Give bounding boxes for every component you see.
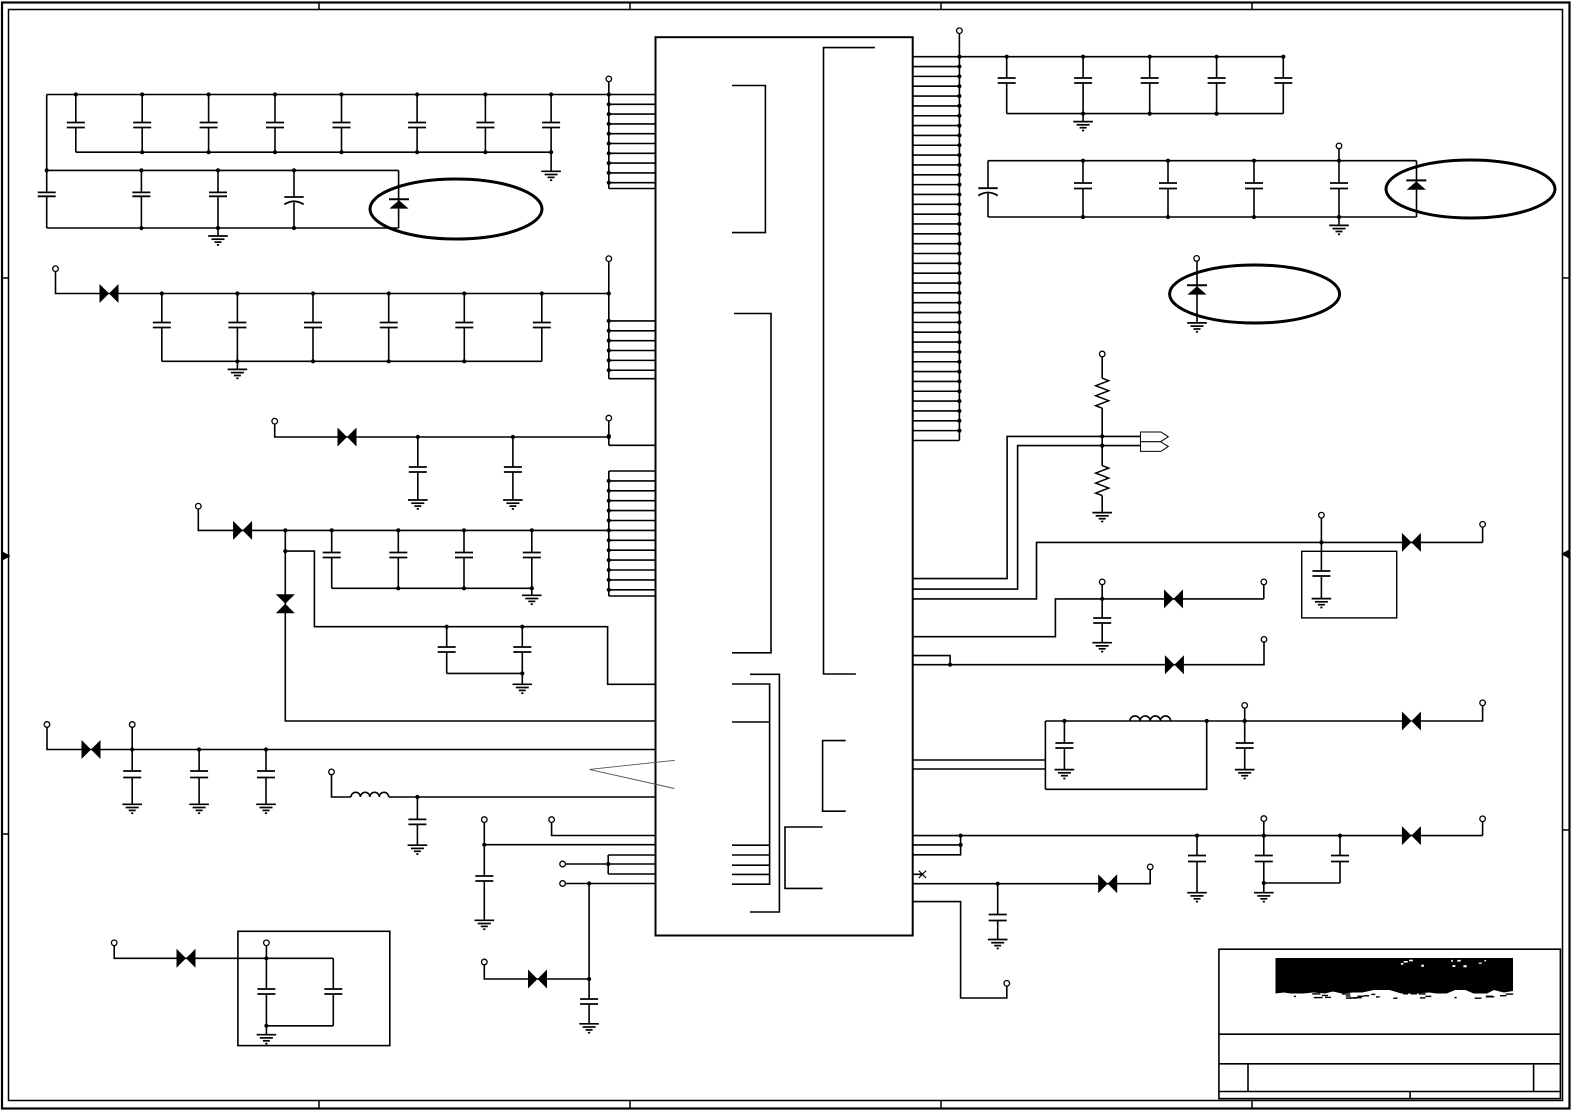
ferrite bead FB12 (1402, 826, 1421, 845)
wire N21 stem (1263, 585, 1265, 599)
right border zone tick 2 (1563, 829, 1570, 831)
wire N23 stem (1244, 708, 1246, 721)
capacitor C34 (380, 291, 398, 361)
capacitor C23 (209, 168, 227, 230)
wire tr-bank top bus (959, 56, 1283, 58)
node N28 connector circle (1004, 981, 1010, 987)
wire tr-bank bottom bus (1007, 113, 1284, 115)
ferrite bead FB6 (528, 970, 547, 989)
bank4 branch junction dot (283, 528, 287, 532)
node N17 connector circle (1099, 351, 1105, 357)
top border zone tick 1 (318, 3, 320, 10)
node N10 connector circle (560, 861, 566, 867)
title block divider 2 (1533, 1064, 1535, 1092)
wire P2 vertical feeder (608, 262, 610, 379)
ground R2 (1092, 513, 1112, 522)
wire bank2 input (56, 272, 609, 294)
node P1 connector circle (606, 76, 612, 82)
wire branch to sub-bank (285, 551, 655, 684)
wire N14 stem (265, 946, 267, 959)
wire sub-bank ground stem (521, 673, 523, 684)
capacitor C111 polarized (978, 161, 997, 217)
title block divider 3 (1409, 1092, 1411, 1099)
wire D3 stem (1196, 261, 1198, 323)
ferrite bead FB4 vertical (276, 594, 295, 613)
ground C142 (1254, 893, 1274, 902)
node N6 connector circle (129, 722, 135, 728)
title block frame (1219, 949, 1561, 1098)
ground D3 (1187, 323, 1207, 332)
highlight ellipse 3 (1170, 265, 1340, 323)
node N11 connector circle (560, 881, 566, 887)
trident connector arrow (1141, 432, 1169, 451)
title block line 3 (1219, 1091, 1561, 1093)
capacitor C122 (1092, 599, 1112, 652)
row1 bottom bus junction dots (140, 150, 487, 154)
node N22 connector circle (1261, 637, 1267, 643)
wire bus835 (913, 835, 1483, 837)
right border zone tick 1 (1563, 277, 1570, 279)
capacitor C18 (542, 92, 560, 152)
node N20 connector circle (1099, 579, 1105, 585)
wire N26 stem (1482, 822, 1484, 836)
node N21 connector circle (1261, 579, 1267, 585)
wire bus3 input (275, 424, 609, 437)
IC inner tall bracket 3 (824, 48, 875, 674)
wire N11 vertical (588, 884, 590, 980)
chevron marker (589, 760, 675, 788)
wire net R4 (913, 599, 1264, 637)
wire bank2 ground stem (236, 361, 238, 369)
IC inner bracket 4 (750, 674, 779, 912)
wire LC pin b (913, 768, 1046, 770)
pin ladder group 1 (607, 92, 656, 188)
wire P1 vertical feeder (608, 82, 610, 189)
wire right pin bus vertical (958, 34, 960, 441)
wire N15 stem (1338, 149, 1340, 161)
capacitor C132 (1235, 719, 1255, 779)
ferrite bead FB3 (233, 521, 252, 540)
top border zone tick 4 (1251, 3, 1253, 10)
node N23 connector circle (1242, 703, 1248, 709)
wire LC top rail (1045, 720, 1411, 722)
left border zone tick 2 (2, 833, 9, 835)
capacitor C82 (475, 843, 495, 930)
ferrite bead FB10 (1165, 655, 1184, 674)
capacitor C141 (1187, 834, 1207, 902)
bank4 bus right junction dot (607, 528, 611, 532)
wire C143 bottom link (1264, 882, 1340, 884)
wire nc pin stub (913, 873, 923, 875)
IC inner bracket 5 rung d (732, 864, 770, 866)
row1 ground junction dot (549, 150, 553, 154)
capacitor C22 (132, 168, 150, 230)
title block line 1 (1219, 1033, 1561, 1035)
bottom border zone tick 2 (629, 1101, 631, 1110)
wire LC output (1421, 706, 1483, 721)
diode D1 (inside ellipse) (389, 199, 409, 208)
highlight ellipse 1 (370, 179, 542, 239)
node N4 connector circle (196, 503, 202, 509)
wire rb2 bottom bus (988, 216, 1417, 218)
capacitor C72 (189, 747, 209, 813)
capacitor C11 (67, 92, 85, 152)
wire N25 stem (1263, 822, 1265, 836)
IC U1 body (656, 37, 913, 935)
capacitor C16 (408, 92, 426, 152)
wire LC bottom rail (1045, 721, 1206, 789)
module box (238, 931, 390, 1045)
capacitor C13 (200, 92, 218, 152)
capacitor C31 (153, 291, 171, 361)
net R3 junction dot (1319, 540, 1323, 544)
wire R2 ground stem (1101, 496, 1103, 513)
snubber box (1302, 551, 1397, 618)
ground bank4 (522, 595, 542, 604)
wire box bottom link (266, 1025, 333, 1027)
IC inner bracket 5 (732, 684, 770, 884)
highlight ellipse 2 (1386, 160, 1555, 218)
wire bus835 step b (913, 845, 961, 855)
wire net901 (913, 902, 1007, 998)
capacitor C35 (455, 291, 473, 361)
wire tr-bank ground stem (1082, 114, 1084, 122)
net R4 junction dot (1100, 597, 1104, 601)
inductor L1 (351, 792, 389, 797)
node P5 connector circle (957, 28, 963, 34)
wire L1 input (332, 775, 352, 797)
bottom border zone tick 3 (940, 1101, 942, 1110)
node N5 connector circle (44, 722, 50, 728)
redacted title text block (1276, 958, 1514, 999)
wire P4 vertical feeder (608, 471, 610, 596)
capacitor C52 (389, 528, 407, 588)
node N24 connector circle (1480, 700, 1486, 706)
top border zone tick 2 (629, 3, 631, 10)
wire R1-R2 link (1101, 408, 1103, 465)
node N13 connector circle (111, 940, 117, 946)
wire row2 right vertical (to diode D1) (398, 170, 400, 228)
capacitor C144 (988, 882, 1008, 949)
capacitor C112 (1074, 159, 1092, 220)
bottom border zone tick 4 (1251, 1101, 1253, 1110)
ground box (257, 1035, 277, 1044)
node N8 connector circle (482, 817, 488, 823)
wire N8 to IC (484, 823, 655, 845)
bottom border zone tick 1 (318, 1101, 320, 1110)
IC inner bracket 7 (785, 827, 823, 888)
pin ladder group 4 (607, 471, 656, 596)
ferrite bead FB2 (338, 428, 357, 447)
capacitor C105 (1274, 55, 1292, 114)
ferrite bead FB11 (1402, 712, 1421, 731)
pin ladder group 3 (607, 434, 656, 445)
wire net R5 stub (913, 656, 950, 665)
wire net883 (913, 870, 1150, 884)
resistor R2 (1096, 466, 1109, 496)
ground row2 (208, 236, 228, 245)
node N15 connector circle (1336, 143, 1342, 149)
wire N18 stem (1320, 518, 1322, 542)
ferrite bead FB7 (177, 949, 196, 968)
node N12 connector circle (482, 959, 488, 965)
capacitor C41 (408, 435, 428, 509)
inductor L2 (1130, 716, 1171, 721)
node P2 connector circle (606, 256, 612, 262)
capacitor C91 (257, 958, 275, 1028)
ground tr-bank (1073, 122, 1093, 131)
node N3 connector circle (272, 418, 278, 424)
capacitor C21 (38, 168, 56, 228)
top border zone tick 3 (940, 3, 942, 10)
capacitor C92 (324, 958, 342, 1026)
wire LC pin a (913, 759, 1046, 761)
wire N10 to IC (566, 863, 656, 865)
tr-bank bottom dots (1081, 112, 1219, 116)
wire row2 bottom bus (47, 227, 399, 229)
bus835 step dots (959, 834, 963, 848)
wire rb2 right vertical (diode D2) (1416, 161, 1418, 217)
wire N11 to IC (566, 883, 656, 885)
capacitor C54 (523, 528, 541, 588)
capacitor C14 (266, 92, 284, 152)
capacitor C121 (in box) (1312, 542, 1332, 607)
capacitor C71 (122, 747, 142, 813)
node P3 connector circle (606, 415, 612, 421)
IC inner bracket 5 rung b (732, 844, 770, 846)
tr-bank bus-vertical dot (957, 55, 961, 59)
capacitor C32 (228, 291, 246, 361)
capacitor C12 (133, 92, 151, 152)
node N14 connector circle (264, 940, 270, 946)
box input junction dot (264, 956, 268, 960)
wire N9 to IC (552, 823, 656, 836)
wire box ground stem (265, 1026, 267, 1035)
wire net R1b (913, 446, 1141, 589)
node N16 connector circle (1194, 256, 1200, 262)
capacitor C36 (533, 291, 551, 361)
IC inner bracket 2 (732, 314, 771, 653)
capacitor C15 (333, 92, 351, 152)
wire N19 stem (1482, 527, 1484, 542)
capacitor C142 (1255, 834, 1273, 886)
capacitor C131 (1055, 719, 1075, 779)
wire net R5 (913, 642, 1264, 664)
node N9 connector circle (549, 817, 555, 823)
node N7 connector circle (329, 769, 335, 775)
capacitor C81 (408, 795, 428, 854)
wire rb2 top bus (988, 160, 1417, 162)
node N25 connector circle (1261, 816, 1267, 822)
left border zone tick 1 (2, 277, 9, 279)
ground rb2 (1329, 225, 1349, 234)
IC inner bracket 6 (823, 741, 846, 812)
capacitor C83 (579, 977, 599, 1033)
IC inner bracket 5 rung e (732, 873, 770, 875)
wire bus835 step a (913, 836, 961, 845)
wire rb2 ground stem (1338, 217, 1340, 225)
capacitor C113 (1159, 159, 1177, 220)
resistor R1 (1096, 378, 1109, 408)
wire C142 ground stem (1263, 883, 1265, 893)
wire row1 top bus (47, 94, 609, 96)
title block divider 1 (1247, 1064, 1249, 1092)
wire N12 bead line (484, 965, 589, 979)
wire N6 stem (131, 728, 133, 750)
net R5 junction dot (948, 663, 952, 667)
node N2 connector circle (53, 266, 59, 272)
wire L1 output (389, 796, 656, 798)
LC mid junction dot (1205, 719, 1209, 723)
wire bank2 bottom bus (162, 360, 542, 362)
capacitor C143 (1331, 834, 1349, 884)
title block line 2 (1219, 1063, 1561, 1065)
wire net R1a (913, 436, 1141, 578)
ground bank2 (228, 369, 248, 378)
wire R1 top stem (1101, 357, 1103, 378)
ground row1 (541, 171, 561, 180)
diode D3 (inside ellipse) (1187, 285, 1207, 294)
bus3 right junction dot (607, 435, 611, 439)
capacitor C73 (256, 747, 276, 813)
wire row2 ground stem (217, 228, 219, 236)
left border centre arrow (3, 552, 11, 561)
wire box input (114, 946, 333, 959)
ferrite bead FB1 (100, 284, 119, 303)
capacitor C61 (438, 625, 456, 674)
right pin ladder (913, 55, 962, 441)
wire row1 ground stem (550, 152, 552, 171)
pin ladder group 2 (607, 291, 656, 378)
ferrite bead FB5 (82, 740, 101, 759)
wire net R3 (913, 542, 1483, 599)
wire row1 bottom bus (76, 151, 551, 153)
wire branch vertical from bank4 (285, 530, 655, 721)
IC inner bracket 5 rung a (732, 721, 770, 723)
node N27 connector circle (1147, 864, 1153, 870)
wire bl-bank input (47, 728, 656, 750)
ferrite bead FB9 (1164, 589, 1183, 608)
wire bank4 input (198, 509, 609, 530)
capacitor C102 (1074, 55, 1092, 114)
node N26 connector circle (1480, 816, 1486, 822)
wire LC left vertical (1044, 721, 1046, 789)
ground sub-bank (513, 684, 533, 693)
capacitor C24 polarized (284, 168, 303, 230)
sub-bank ground dot (520, 671, 524, 675)
node N18 connector circle (1319, 512, 1325, 518)
ferrite bead FB13 (1098, 874, 1117, 893)
branch junction dot at 551 (283, 549, 287, 553)
capacitor C115 (1330, 159, 1348, 220)
capacitor C53 (455, 528, 473, 588)
node N19 connector circle (1480, 522, 1486, 528)
capacitor C17 (476, 92, 494, 152)
wire P3 vertical feeder (608, 421, 610, 445)
bank4 bottom dots (396, 586, 534, 590)
N11 junction dot (587, 881, 591, 885)
capacitor C33 (304, 291, 322, 361)
wire bank4 ground stem (531, 588, 533, 595)
capacitor C101 (998, 55, 1016, 114)
right border centre arrow (1561, 550, 1569, 559)
IC inner bracket 1 (732, 86, 765, 233)
capacitor C104 (1208, 55, 1226, 114)
IC inner bracket 5 rung c (732, 854, 770, 856)
wire bank4 bottom bus (332, 587, 532, 589)
mini ladder (606, 855, 655, 874)
no-connect X mark (919, 871, 926, 878)
capacitor C103 (1141, 55, 1159, 114)
capacitor C62 (513, 625, 531, 674)
ferrite bead FB8 (1402, 533, 1421, 552)
wire row2 top bus (47, 169, 399, 171)
capacitor C114 (1245, 159, 1263, 220)
wire row1 left vertical (46, 95, 48, 171)
wire N20 stem (1101, 585, 1103, 599)
bank2 bottom bus junction dots (235, 359, 466, 363)
R divider junction dots (1100, 434, 1104, 447)
diode D2 (inside ellipse) (1406, 180, 1426, 189)
capacitor C42 (503, 435, 523, 509)
wire sub-bank bottom (447, 672, 523, 674)
capacitor C51 (323, 528, 341, 588)
